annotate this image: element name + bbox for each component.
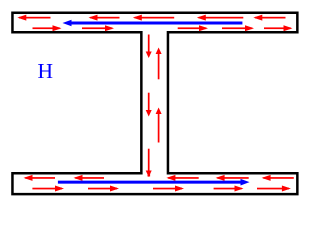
svg-text:H: H bbox=[38, 59, 54, 83]
